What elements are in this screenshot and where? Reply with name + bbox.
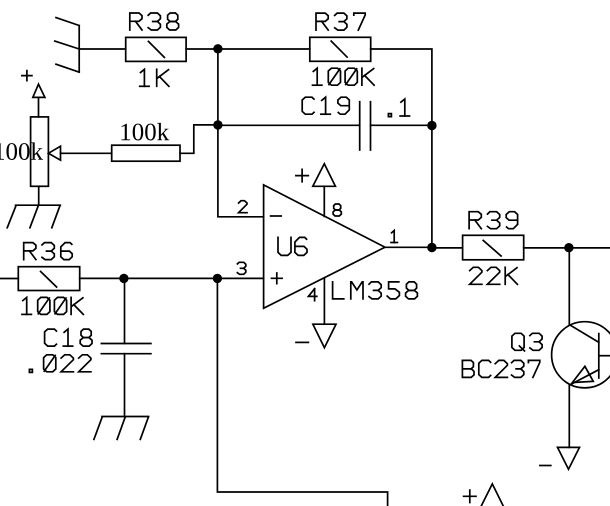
node B (feedback junction) [427, 121, 436, 130]
node D (C18 tap) [119, 274, 128, 283]
label R38 [130, 13, 179, 30]
wire [371, 124, 432, 126]
wire [79, 48, 126, 50]
potentiometer 100k [31, 117, 49, 186]
Q3 emitter line [570, 370, 599, 385]
node G (R39/Q3 junction) [564, 243, 573, 252]
pin 8 number [333, 204, 341, 216]
label R39 [469, 212, 517, 229]
label 100k (series resistor, serif) [121, 123, 169, 141]
wire [124, 354, 126, 417]
ground (C18) [94, 417, 149, 440]
wire [568, 385, 570, 448]
ground (pot) [7, 205, 60, 228]
resistor R37 [310, 37, 371, 61]
resistor R38 [126, 37, 186, 61]
node E (pin3 junction) [213, 274, 222, 283]
wire [180, 125, 218, 153]
label C19 [302, 97, 349, 114]
pot wiper arrow [48, 146, 60, 160]
wire [385, 246, 432, 248]
wire [80, 277, 264, 279]
pin 8 wire [323, 186, 325, 216]
pin 1 number [391, 231, 397, 243]
value .022 [29, 355, 91, 373]
wire [218, 49, 264, 217]
value .1 [388, 99, 409, 117]
label C18 [45, 329, 92, 346]
wire [524, 247, 610, 249]
node A (R38/R37 junction) [213, 44, 222, 53]
pin 4 wire [323, 278, 325, 324]
pin 2 number [239, 201, 247, 213]
power -V arrow (pin 4) [313, 324, 336, 348]
power +V arrow (bottom) [481, 484, 504, 506]
Q3 collector line [570, 325, 599, 342]
pin 4 number [308, 289, 316, 301]
label 100k (pot, serif) [0, 142, 43, 160]
wire [124, 278, 126, 343]
wire [0, 278, 18, 280]
value 1K [140, 69, 169, 86]
op-amp plus input mark [272, 273, 283, 284]
label R36 [24, 243, 72, 260]
value 100K (R36) [22, 297, 83, 314]
node C (R38 net to C19) [213, 120, 222, 129]
wire [218, 124, 360, 126]
wire [431, 126, 433, 248]
Q3 base wire [599, 355, 610, 357]
node F (op-amp output) [427, 243, 436, 252]
value 100K [313, 68, 375, 85]
capacitor C19 [360, 102, 371, 150]
label BC237 [462, 360, 539, 377]
wire [371, 49, 432, 126]
wire [61, 152, 112, 154]
label R37 [316, 13, 365, 30]
transistor Q3 body [552, 322, 610, 388]
label + (bottom supply) [464, 490, 476, 502]
connector J1 (input jack) [55, 18, 79, 73]
pin 3 number [237, 262, 245, 274]
label U6 [278, 237, 307, 255]
wire [217, 278, 387, 506]
resistor R39 [463, 235, 524, 259]
label - (V- supply) [296, 341, 308, 343]
wire [38, 186, 40, 205]
label Q3 [512, 333, 542, 351]
label + (pot supply) [22, 71, 32, 81]
op-amp U6 [264, 185, 385, 308]
Q3 emitter arrow [572, 366, 593, 382]
power -V arrow (emitter) [558, 447, 580, 469]
resistor R36 [18, 267, 79, 291]
value 22K [470, 267, 518, 284]
power +V arrow (pin 8) [313, 164, 336, 187]
Q3 base bar [598, 334, 600, 378]
power +V arrow (pot top) [33, 84, 45, 117]
wire [568, 248, 570, 325]
resistor 100k (pot series) [112, 145, 180, 161]
capacitor C18 [101, 344, 150, 354]
label - (emitter supply) [540, 465, 551, 467]
op-amp minus input mark [271, 215, 282, 217]
label + (V+ supply) [296, 169, 308, 181]
wire [432, 247, 463, 249]
label LM358 [333, 282, 418, 299]
wire [218, 48, 310, 50]
wire [186, 48, 218, 50]
